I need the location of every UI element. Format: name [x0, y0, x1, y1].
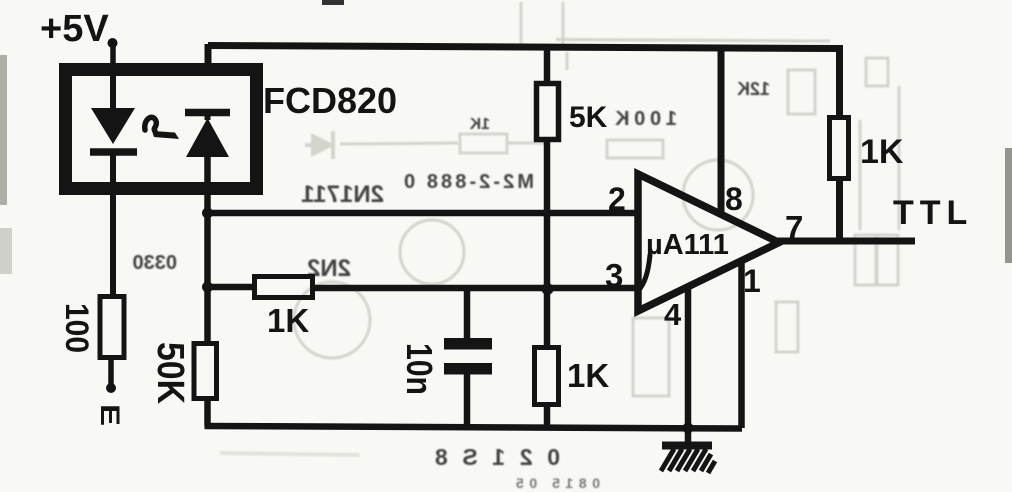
svg-text:0330: 0330 — [133, 252, 178, 274]
optocoupler FCD820 box — [66, 70, 257, 189]
capacitor 10n — [464, 288, 471, 340]
svg-text:10n: 10n — [399, 343, 440, 395]
photodiode inside optocoupler — [185, 109, 230, 117]
ground symbol — [662, 442, 712, 450]
svg-text:100K: 100K — [614, 108, 677, 130]
op-amp uA111 triangle — [638, 174, 779, 311]
svg-text:12K: 12K — [737, 79, 770, 99]
node: pin2 junction — [202, 208, 213, 219]
svg-text:5K: 5K — [569, 101, 608, 134]
ghost mirrored text — [133, 79, 771, 491]
edge smudges — [0, 55, 7, 205]
wire: +5V stub — [110, 40, 116, 70]
pin 1 wire — [738, 261, 745, 428]
svg-text:1K: 1K — [860, 133, 904, 171]
resistor 100 — [100, 297, 124, 358]
svg-text:50K: 50K — [149, 342, 191, 404]
mu tail — [638, 255, 650, 291]
ghost vertical faint lines — [520, 2, 523, 44]
LED inside optocoupler — [110, 70, 116, 110]
svg-text:µA111: µA111 — [646, 229, 729, 261]
node: pin3 / 5K junction — [542, 283, 554, 295]
wire: rail to optocoupler — [205, 44, 212, 70]
ghost resistor right — [607, 140, 663, 158]
ghost transistor circle — [400, 220, 464, 284]
main circuit — [66, 38, 916, 473]
svg-text:E: E — [95, 404, 125, 426]
ghost resistor — [460, 134, 507, 153]
ground node — [683, 423, 694, 434]
svg-text:3: 3 — [605, 257, 623, 294]
right 1K resistor with legs — [836, 45, 843, 118]
svg-text:8: 8 — [725, 181, 743, 217]
resistor 1K vertical — [544, 289, 551, 348]
ghost box 12K — [788, 70, 815, 114]
node: 1K junction — [202, 282, 213, 293]
light coupling squiggle — [145, 117, 157, 131]
wire to pin 2 — [208, 210, 639, 217]
svg-text:100: 100 — [59, 303, 95, 353]
ghost diode arrow — [305, 131, 333, 159]
svg-text:2N1711: 2N1711 — [301, 181, 384, 208]
svg-text:2: 2 — [608, 181, 626, 217]
svg-text:FCD820: FCD820 — [263, 80, 397, 121]
bottom rail — [205, 426, 743, 429]
svg-text:1K: 1K — [267, 302, 309, 339]
svg-text:TTL: TTL — [893, 194, 973, 232]
resistor 50K — [194, 344, 217, 399]
pin 4 wire — [685, 287, 692, 428]
svg-text:1K: 1K — [469, 116, 490, 133]
pin 8 wire — [718, 47, 725, 215]
resistor 1K horizontal — [255, 277, 313, 298]
ghost bleed-through layer — [220, 2, 899, 455]
wire 50K to bottom rail — [204, 398, 211, 426]
wire 1K to pin3 node — [313, 285, 638, 292]
svg-text:4: 4 — [664, 297, 682, 332]
output wire pin 7 — [778, 238, 915, 245]
svg-text:7: 7 — [785, 209, 803, 246]
wire: +5V rail (top) — [208, 46, 840, 49]
svg-text:1: 1 — [743, 263, 761, 299]
ghost wire — [340, 143, 458, 144]
svg-text:1K: 1K — [567, 357, 609, 394]
wire to 1K resistor — [208, 284, 255, 291]
resistor 5K with legs — [544, 45, 551, 84]
svg-text:+5V: +5V — [40, 8, 109, 50]
